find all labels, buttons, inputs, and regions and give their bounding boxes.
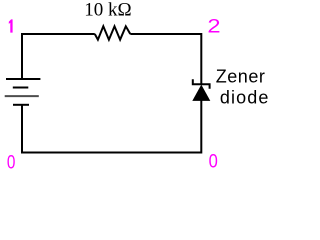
wire: zener anode to bottom-right corner, bottom run, up to battery negative [22,100,201,153]
node 1 label [9,19,13,32]
zener diode D1 cathode bar with bent tips [193,79,210,88]
resistor R1 (10 kΩ) zigzag [95,26,131,39]
svg-text:0: 0 [7,152,16,173]
svg-text:0: 0 [209,152,218,173]
zener diode D1 anode triangle [192,85,210,101]
svg-text:10 kΩ: 10 kΩ [84,0,131,21]
battery plate 4 (short, negative) [13,104,29,106]
battery plate 3 (long, gray) [5,95,39,97]
battery plate 1 (long, positive) [6,78,40,80]
svg-text:diode: diode [220,87,270,107]
svg-text:Zener: Zener [216,67,266,87]
svg-text:2: 2 [207,16,220,37]
wire: resistor right lead to node 2 corner and down to zener cathode [130,34,201,84]
battery plate 2 (short) [13,87,28,89]
wire: node 1 corner to resistor left lead (top-left) [22,34,95,79]
